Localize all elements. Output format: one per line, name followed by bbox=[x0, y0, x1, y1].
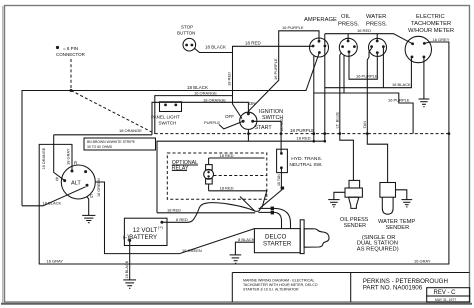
svg-text:16 RED: 16 RED bbox=[357, 28, 371, 33]
node connector pin P1 bbox=[70, 89, 73, 92]
svg-text:LT. BLUE: LT. BLUE bbox=[335, 112, 340, 129]
svg-text:REV - C: REV - C bbox=[434, 290, 457, 296]
svg-text:18 ORANGE: 18 ORANGE bbox=[203, 97, 226, 102]
svg-text:TACHOMETER WITH HOUR METER, DE: TACHOMETER WITH HOUR METER, DELCO bbox=[243, 283, 318, 287]
wire dashed connector boundary horizontal 18 PURPLE bbox=[155, 133, 449, 135]
svg-text:TAN: TAN bbox=[362, 121, 367, 129]
ground battery bbox=[123, 280, 136, 288]
ground alternator bbox=[82, 197, 95, 223]
wire 18 ORANGE panel light bbox=[152, 97, 248, 135]
wire 18 ORANGE field line bbox=[54, 128, 152, 135]
svg-text:WATER: WATER bbox=[366, 14, 386, 20]
svg-text:16 ORANGE: 16 ORANGE bbox=[42, 147, 46, 169]
wire 18 RED relay top bbox=[209, 153, 265, 158]
svg-text:18 BLACK: 18 BLACK bbox=[125, 260, 129, 278]
title block bbox=[232, 273, 469, 303]
svg-text:W/HOUR METER: W/HOUR METER bbox=[408, 28, 454, 34]
svg-text:STOP: STOP bbox=[181, 25, 193, 30]
wire 8 RED battery positive with service loop bbox=[162, 203, 260, 223]
gauge electric tachometer M4 bbox=[405, 14, 454, 63]
wire 16 BLACK gauge ground bus bbox=[325, 34, 412, 142]
gauge oil pressure M2 bbox=[338, 14, 360, 56]
gauge amperage M1 bbox=[304, 17, 337, 57]
ignition switch S3 bbox=[225, 101, 283, 131]
svg-text:12 VOLT: 12 VOLT bbox=[133, 227, 158, 234]
svg-text:MAY 31, 1977: MAY 31, 1977 bbox=[435, 298, 456, 302]
gauge water temperature M3 bbox=[366, 14, 388, 56]
svg-text:16 GREY: 16 GREY bbox=[433, 37, 450, 42]
svg-text:16 BLACK: 16 BLACK bbox=[392, 82, 411, 87]
svg-text:16 GRAY: 16 GRAY bbox=[414, 259, 431, 264]
wire 16 ORANGE bbox=[155, 91, 233, 134]
hydraulic transmission neutral switch S4 bbox=[277, 149, 323, 172]
svg-text:BN BROWN W/WHITE STRIPE: BN BROWN W/WHITE STRIPE bbox=[87, 140, 136, 144]
svg-text:18 RED: 18 RED bbox=[227, 72, 232, 86]
svg-text:16 GRAY: 16 GRAY bbox=[47, 259, 64, 264]
svg-text:16 GREEN: 16 GREEN bbox=[97, 178, 101, 197]
wire 16 ORANGE alternator B bbox=[42, 135, 65, 181]
wire TAN water gauge to sender bbox=[362, 48, 388, 183]
svg-text:18 RED: 18 RED bbox=[297, 136, 311, 141]
svg-text:ON: ON bbox=[249, 101, 256, 106]
wire 16 GREEN alternator to starter bbox=[95, 178, 254, 254]
svg-text:8 RED: 8 RED bbox=[176, 217, 188, 222]
wire dashed relay middle bbox=[214, 175, 267, 177]
wire 16 PURPLE gauge feed rail bbox=[249, 25, 319, 114]
wire dashed connector boundary diagonal bbox=[71, 91, 155, 134]
svg-text:OFF: OFF bbox=[225, 114, 234, 119]
svg-text:CONNECTOR: CONNECTOR bbox=[56, 52, 86, 57]
svg-text:18 BLACK: 18 BLACK bbox=[187, 85, 208, 90]
svg-text:PRESS.: PRESS. bbox=[366, 22, 388, 28]
panel light switch S2 bbox=[151, 102, 182, 126]
svg-text:16 PURPLE: 16 PURPLE bbox=[273, 58, 278, 80]
svg-text:ALT: ALT bbox=[71, 181, 81, 187]
svg-text:B: B bbox=[56, 177, 59, 182]
wire solenoid to starter bbox=[274, 208, 291, 228]
svg-text:SENDER: SENDER bbox=[344, 223, 367, 229]
wire 18 BLACK stop button bbox=[194, 45, 232, 53]
wire 16 GREY tachometer signal bbox=[39, 37, 450, 264]
svg-text:18 RED: 18 RED bbox=[220, 153, 234, 158]
ground water sender bbox=[396, 190, 413, 207]
note single or dual station bbox=[357, 235, 399, 252]
svg-text:30 TO 60 OHMS: 30 TO 60 OHMS bbox=[87, 145, 113, 149]
wire 8 BLACK starter ground bbox=[235, 237, 254, 255]
oil pressure sender B1 bbox=[340, 180, 369, 228]
starter solenoid terminals bbox=[259, 207, 275, 215]
svg-text:BUTTON: BUTTON bbox=[177, 31, 195, 36]
svg-text:NEUTRAL SW.: NEUTRAL SW. bbox=[289, 162, 322, 168]
svg-text:PRESS.: PRESS. bbox=[338, 22, 360, 28]
svg-text:8 BLACK: 8 BLACK bbox=[238, 237, 255, 242]
svg-text:AS REQUIRED): AS REQUIRED) bbox=[357, 246, 399, 252]
wire dashed leader from connector legend bbox=[70, 59, 72, 91]
wire 18 BLACK alternator ground run bbox=[22, 187, 86, 206]
wire PURPLE panel light tap bbox=[204, 120, 243, 129]
svg-text:18 RED: 18 RED bbox=[245, 41, 262, 46]
battery BT1 bbox=[123, 218, 167, 245]
svg-text:16 GREEN: 16 GREEN bbox=[182, 248, 202, 253]
svg-text:STARTER: STARTER bbox=[263, 240, 292, 247]
starter motor M5 bbox=[254, 220, 329, 254]
svg-text:PART NO. NA001906: PART NO. NA001906 bbox=[363, 285, 423, 292]
wire 18 BLACK battery negative bbox=[125, 240, 130, 280]
svg-text:18 ORANGE: 18 ORANGE bbox=[119, 128, 142, 133]
svg-text:18 TAN: 18 TAN bbox=[277, 174, 281, 186]
svg-text:ELECTRIC: ELECTRIC bbox=[416, 14, 445, 20]
svg-text:18 GRAY: 18 GRAY bbox=[66, 148, 71, 165]
svg-text:(-)BATTERY: (-)BATTERY bbox=[123, 234, 157, 241]
node connector pins on boundary bbox=[247, 132, 450, 135]
svg-text:18 RED: 18 RED bbox=[220, 185, 234, 190]
svg-text:16 PURPLE: 16 PURPLE bbox=[282, 25, 304, 30]
wire ignition START to neutral switch bbox=[253, 119, 285, 154]
svg-text:(+): (+) bbox=[158, 225, 164, 230]
wire ignition bottom stem bbox=[247, 129, 249, 141]
ground tachometer bbox=[419, 57, 430, 107]
svg-text:START: START bbox=[255, 125, 273, 131]
optional relay K1 bbox=[167, 153, 266, 199]
node 8-pin-connector legend bbox=[56, 46, 86, 57]
water temperature sender B2 bbox=[378, 183, 415, 231]
wire 18 BLACK main bus bbox=[22, 54, 319, 206]
stop button S1 bbox=[177, 25, 196, 52]
svg-text:18 RED: 18 RED bbox=[280, 119, 284, 132]
svg-text:MARINE WIRING DIAGRAM - ELECTR: MARINE WIRING DIAGRAM - ELECTRICAL bbox=[243, 278, 314, 282]
svg-text:= 8 PIN: = 8 PIN bbox=[63, 46, 78, 51]
wire 18 RED ignition feed bbox=[227, 41, 314, 119]
svg-text:18 PURPLE: 18 PURPLE bbox=[290, 128, 314, 133]
wire 16 PURPLE lighting bus bbox=[314, 52, 413, 141]
resistance note box bbox=[84, 138, 156, 150]
svg-text:STARTER & 10 S.I. ALTERNATOR: STARTER & 10 S.I. ALTERNATOR bbox=[243, 287, 299, 291]
ground oil sender bbox=[328, 192, 345, 207]
wire LT. BLUE oil gauge to sender bbox=[335, 53, 354, 181]
svg-text:18 BLACK: 18 BLACK bbox=[205, 45, 226, 50]
ground starter bbox=[230, 255, 242, 263]
svg-text:18 BLACK: 18 BLACK bbox=[43, 200, 62, 205]
wire 16 RED gauge rail bbox=[325, 28, 413, 44]
svg-text:HYD. TRANS.: HYD. TRANS. bbox=[291, 156, 322, 162]
svg-text:OIL: OIL bbox=[341, 14, 351, 20]
wire 18 RED relay bottom to solenoid bbox=[209, 185, 267, 211]
alternator G1 bbox=[56, 161, 96, 200]
svg-text:SENDER: SENDER bbox=[386, 225, 410, 231]
svg-text:16 ORANGE: 16 ORANGE bbox=[194, 91, 217, 96]
svg-text:18 RED: 18 RED bbox=[167, 207, 181, 212]
svg-text:TACHOMETER: TACHOMETER bbox=[411, 21, 451, 27]
svg-text:AMPERAGE: AMPERAGE bbox=[304, 17, 337, 23]
svg-text:PANEL LIGHT: PANEL LIGHT bbox=[151, 115, 180, 120]
svg-text:SWITCH: SWITCH bbox=[159, 121, 177, 126]
svg-text:16 PURPLE: 16 PURPLE bbox=[388, 97, 410, 102]
svg-text:PURPLE: PURPLE bbox=[204, 120, 220, 125]
wire 18 RED panel box run bbox=[157, 136, 326, 213]
wire 18 TAN neutral switch to solenoid bbox=[260, 168, 284, 208]
svg-text:G: G bbox=[90, 193, 94, 198]
